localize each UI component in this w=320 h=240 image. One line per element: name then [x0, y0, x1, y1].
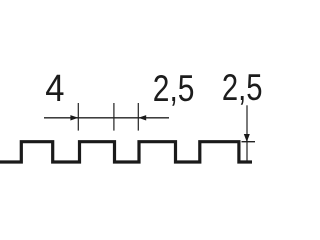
svg-text:2,5: 2,5 [153, 68, 195, 110]
arrow left at tick3 [138, 115, 146, 120]
wire: horizontal dimension line [44, 117, 169, 119]
svg-text:2,5: 2,5 [222, 68, 263, 109]
node C: extension tick 3 [137, 103, 139, 131]
wire: toothed profile polyline [0, 142, 252, 162]
node B: extension tick 2 [113, 103, 115, 131]
wire: extension line right end [242, 141, 256, 143]
svg-text:4: 4 [45, 66, 64, 109]
wire: vertical dimension line right [246, 105, 248, 161]
node A: extension tick 1 [77, 103, 79, 131]
arrow down at right [244, 134, 250, 142]
arrow right at tick1 [70, 115, 78, 120]
